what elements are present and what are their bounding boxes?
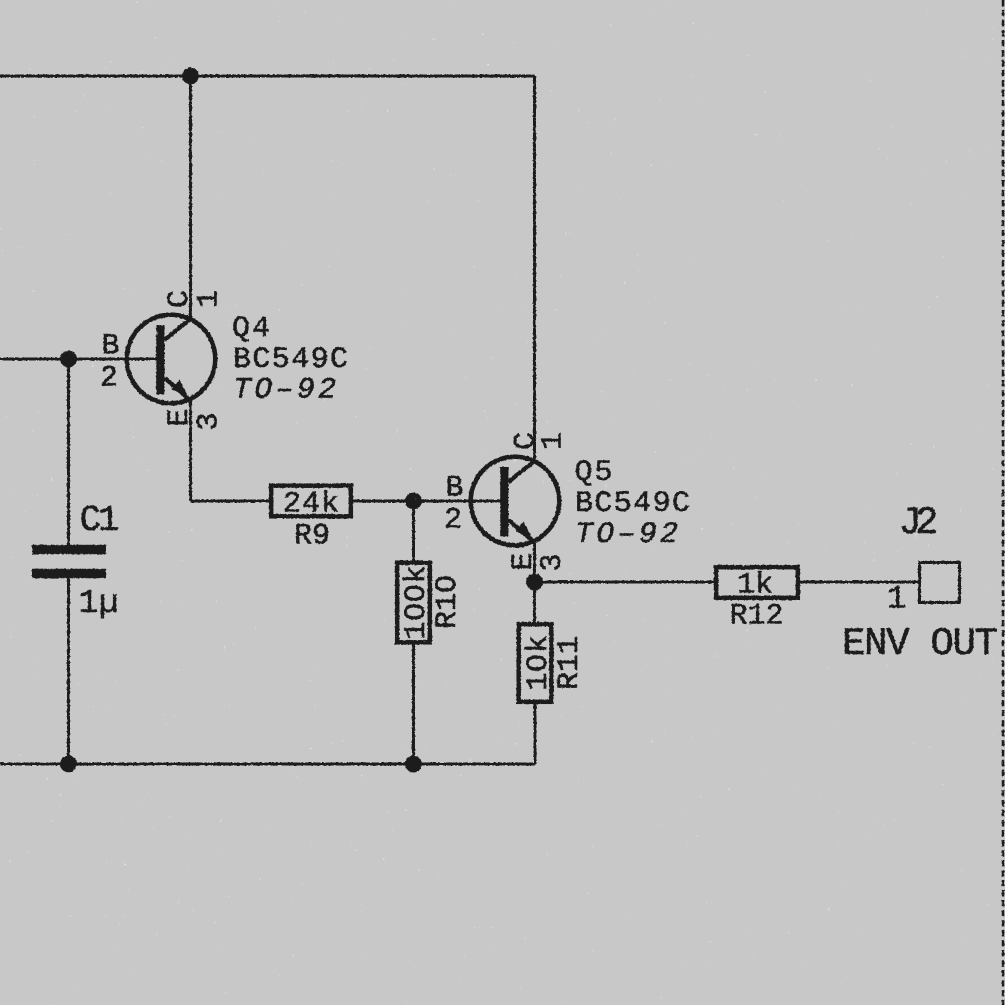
- resistor R10 body: [397, 563, 430, 643]
- resistor R9 body: [271, 486, 351, 517]
- transistor Q4: [127, 315, 216, 404]
- node junction top rail / Q4 collector: [182, 68, 199, 85]
- node junction Q5 emitter / R11 / R12: [526, 574, 543, 591]
- resistor R11 body: [519, 624, 552, 702]
- capacitor C1 plates: [32, 545, 106, 555]
- wire Q4 emitter to R9: [191, 500, 271, 503]
- node junction bottom rail / C1: [60, 756, 77, 773]
- node junction R9 / R10 / Q5 base: [405, 493, 422, 510]
- node junction base / C1: [60, 351, 77, 368]
- wire C1 bottom: [67, 576, 70, 764]
- wire R9 to Q5 base: [353, 500, 502, 503]
- wire Q5 collector vertical: [533, 76, 536, 460]
- wire bottom rail: [0, 763, 535, 766]
- wire R11 bottom: [534, 702, 537, 764]
- wire C1 top: [67, 359, 70, 546]
- wire R12 to J2: [798, 581, 918, 584]
- wire Q5 emitter vertical: [533, 542, 536, 624]
- wire R10 bottom: [412, 643, 415, 764]
- resistor R12 body: [716, 567, 798, 598]
- node junction bottom rail / R10: [405, 756, 422, 773]
- wire top rail: [0, 75, 535, 78]
- connector J2 pad: [920, 563, 960, 603]
- wire Q4 emitter vertical: [189, 399, 192, 501]
- wire Q4 base: [0, 358, 158, 361]
- transistor Q5: [471, 457, 560, 546]
- wire emitter node to R12: [535, 581, 716, 584]
- wire Q4 collector vertical: [189, 76, 192, 319]
- wire R10 top: [412, 501, 415, 562]
- bus dashed line right edge: [1002, 0, 1005, 1005]
